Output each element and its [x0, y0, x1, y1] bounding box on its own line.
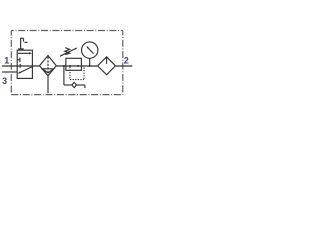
svg-text:1: 1 [4, 55, 9, 65]
svg-text:2: 2 [124, 56, 129, 66]
svg-text:3: 3 [2, 76, 7, 86]
